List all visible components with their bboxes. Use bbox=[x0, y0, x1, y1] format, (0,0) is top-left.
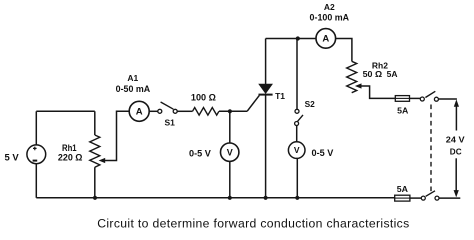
node dot T1 bottom bbox=[264, 196, 268, 200]
wire fuse to switch bbox=[410, 97, 421, 99]
Rh1 wiper arrow bbox=[99, 111, 130, 163]
thyristor T1 gate wire bbox=[247, 95, 259, 111]
rheostat Rh2 bbox=[347, 61, 357, 92]
fuse bottom 5A bbox=[395, 195, 410, 201]
supply arrow up (24V terminal) bbox=[454, 99, 459, 130]
svg-text:24 V: 24 V bbox=[446, 134, 465, 144]
svg-text:100 Ω: 100 Ω bbox=[191, 92, 216, 102]
svg-text:5A: 5A bbox=[387, 69, 398, 79]
switch top (main) bbox=[420, 91, 438, 101]
switch S2 wire from top rail bbox=[296, 39, 298, 110]
supply arrow down (24V terminal) bbox=[454, 158, 459, 197]
wire V2 to bottom rail bbox=[296, 158, 298, 197]
svg-text:A: A bbox=[136, 107, 143, 118]
Rh2 wiper arrow bbox=[355, 83, 395, 98]
wire S1 to resistor bbox=[177, 110, 192, 112]
svg-text:5A: 5A bbox=[397, 184, 408, 194]
voltmeter V2 bbox=[288, 142, 305, 159]
node dot V2 bottom bbox=[295, 196, 299, 200]
svg-text:S1: S1 bbox=[165, 117, 176, 127]
switch S2 bbox=[295, 109, 303, 125]
switch bottom (main) bbox=[421, 191, 439, 200]
node dot Rh1 bottom bbox=[93, 196, 97, 200]
wire A2 to Rh2 corner bbox=[336, 39, 352, 62]
svg-text:5 V: 5 V bbox=[5, 153, 20, 163]
svg-text:50 Ω: 50 Ω bbox=[363, 69, 383, 79]
voltmeter V1 bbox=[221, 143, 239, 161]
svg-text:A2: A2 bbox=[324, 2, 335, 12]
svg-text:A1: A1 bbox=[127, 73, 138, 83]
svg-text:0-5 V: 0-5 V bbox=[189, 148, 211, 158]
wire V1 to bottom rail bbox=[229, 161, 231, 197]
svg-text:V: V bbox=[294, 145, 300, 155]
svg-text:V: V bbox=[227, 147, 233, 157]
wire bottom switch to supply corner bbox=[439, 197, 460, 199]
thyristor T1 bbox=[259, 39, 273, 198]
ammeter A1 bbox=[129, 101, 149, 121]
ammeter A2 bbox=[316, 29, 336, 49]
svg-text:0-50 mA: 0-50 mA bbox=[116, 84, 151, 94]
node junction dot bbox=[228, 109, 232, 113]
switch S1 bbox=[158, 102, 177, 113]
wire bottom rail bbox=[36, 197, 394, 199]
svg-text:5A: 5A bbox=[397, 105, 408, 115]
fuse top 5A bbox=[395, 96, 409, 102]
battery source 5V circle bbox=[27, 145, 46, 164]
wire fuse to bottom switch bbox=[410, 197, 421, 199]
wire resistor to gate bend bbox=[219, 110, 247, 112]
wire switch to supply corner bbox=[439, 98, 457, 100]
svg-text:DC: DC bbox=[450, 147, 462, 157]
svg-text:S2: S2 bbox=[305, 99, 315, 109]
svg-text:A: A bbox=[322, 34, 329, 45]
wire top rail bbox=[266, 38, 316, 40]
dashed gang link between switches bbox=[430, 105, 432, 193]
resistor 100 ohm bbox=[193, 108, 219, 116]
wire junction down to voltmeter V1 bbox=[229, 111, 231, 143]
node dot V1 bottom bbox=[228, 196, 232, 200]
rheostat Rh1 bbox=[90, 111, 100, 198]
wire: left vertical above source bbox=[35, 111, 37, 145]
wire S2 to voltmeter V2 bbox=[296, 126, 298, 142]
node dot top rail bbox=[296, 36, 300, 40]
svg-text:220 Ω: 220 Ω bbox=[58, 152, 83, 162]
svg-text:0-100 mA: 0-100 mA bbox=[310, 13, 350, 23]
svg-text:Circuit to determine forward c: Circuit to determine forward conduction … bbox=[97, 216, 409, 230]
svg-text:T1: T1 bbox=[275, 91, 285, 101]
wire: left loop top (source to Rh1 top) bbox=[36, 110, 95, 112]
wire: left vertical below source bbox=[35, 164, 37, 198]
svg-text:0-5 V: 0-5 V bbox=[312, 148, 334, 158]
wire A1 to S1 bbox=[149, 110, 157, 112]
